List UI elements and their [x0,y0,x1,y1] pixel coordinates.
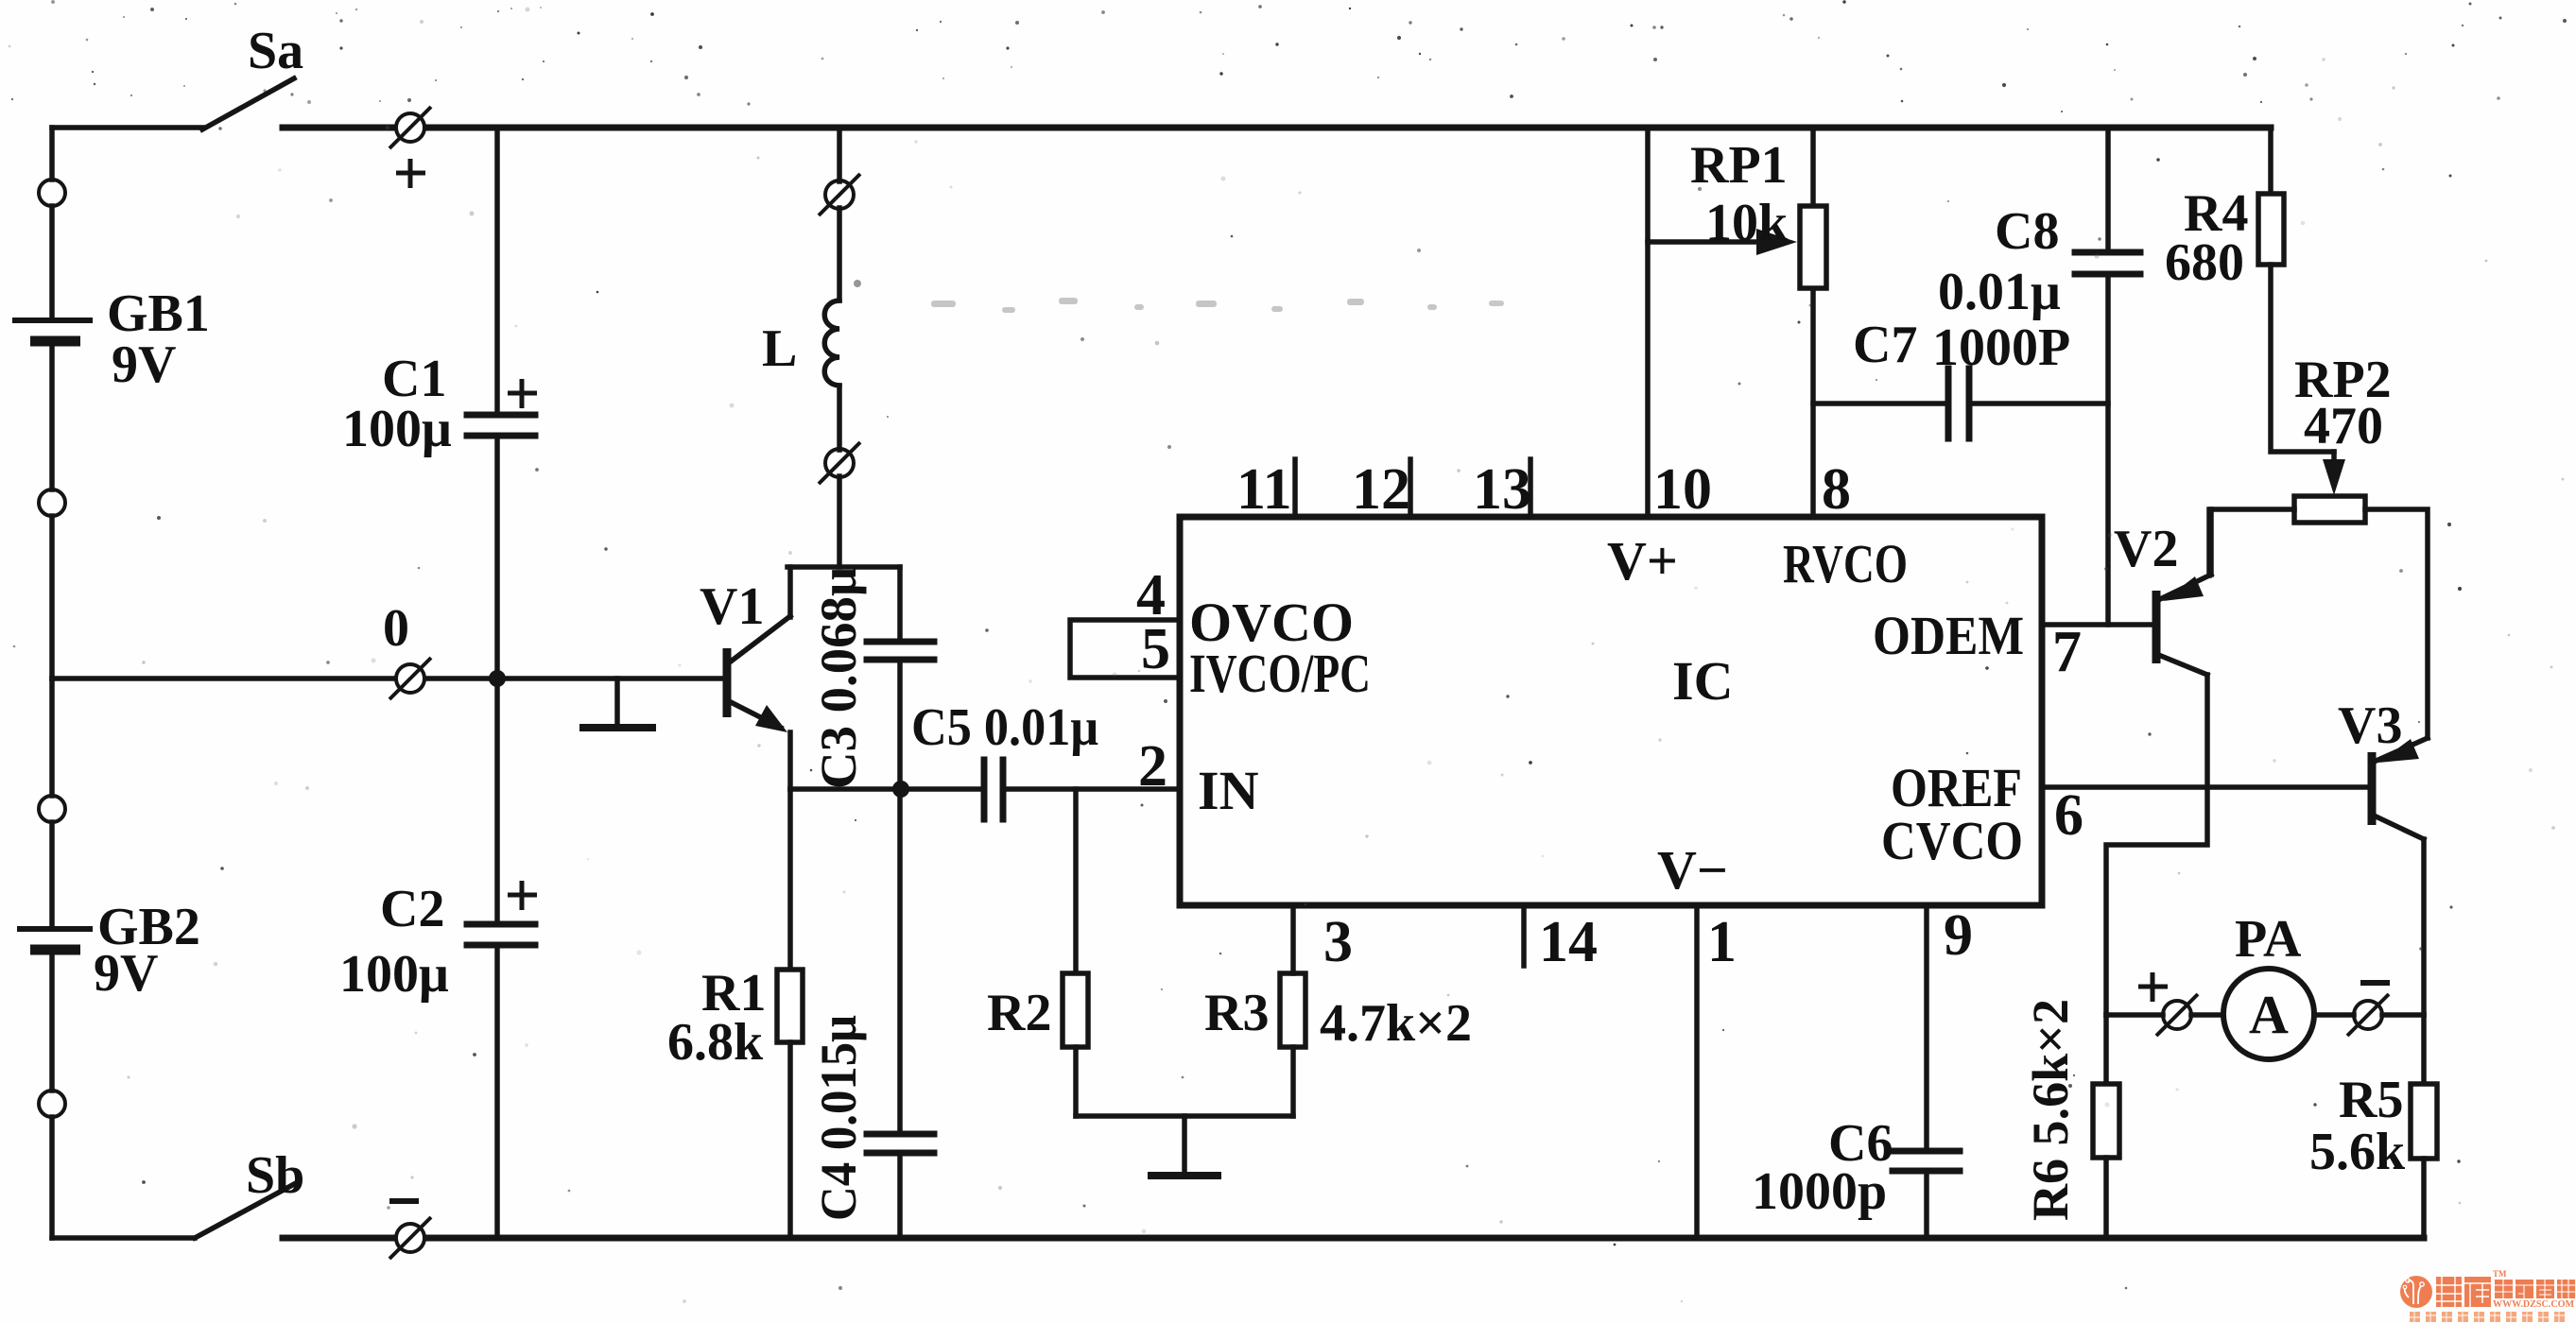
svg-text:C4 0.015μ: C4 0.015μ [810,1015,867,1221]
svg-text:9V: 9V [112,335,176,394]
svg-text:100μ: 100μ [339,945,449,1004]
svg-text:8: 8 [1822,457,1851,522]
svg-text:680: 680 [2165,233,2244,292]
svg-text:ODEM: ODEM [1873,605,2024,666]
svg-text:R3: R3 [1204,984,1269,1042]
svg-text:12: 12 [1352,457,1410,522]
svg-text:V+: V+ [1607,530,1678,592]
svg-text:9: 9 [1944,903,1973,968]
svg-text:7: 7 [2052,620,2082,684]
svg-text:100μ: 100μ [342,400,452,458]
svg-text:10k: 10k [1705,194,1789,252]
svg-text:CVCO: CVCO [1881,810,2023,871]
svg-text:13: 13 [1473,457,1531,522]
svg-text:R2: R2 [987,984,1051,1042]
svg-text:470: 470 [2304,397,2383,455]
svg-text:Sa: Sa [248,22,303,80]
svg-text:IVCO/PC: IVCO/PC [1189,643,1371,704]
svg-text:Sb: Sb [246,1146,304,1205]
svg-text:14: 14 [1539,910,1598,974]
svg-text:C5 0.01μ: C5 0.01μ [911,698,1098,757]
svg-text:1: 1 [1707,910,1737,974]
svg-text:RVCO: RVCO [1783,533,1908,594]
svg-text:L: L [762,319,797,378]
svg-text:GB1: GB1 [107,284,210,343]
svg-text:WWW.DZSC.COM: WWW.DZSC.COM [2493,1299,2575,1310]
svg-text:V−: V− [1657,839,1728,901]
svg-text:0.01μ: 0.01μ [1938,263,2061,321]
svg-text:C3 0.068μ: C3 0.068μ [810,567,867,789]
svg-text:C8: C8 [1995,202,2059,261]
svg-text:C7: C7 [1853,316,1917,374]
svg-text:6.8k: 6.8k [667,1013,764,1072]
svg-text:IC: IC [1672,650,1733,712]
svg-text:R6 5.6k×2: R6 5.6k×2 [2022,999,2079,1221]
svg-text:V1: V1 [700,577,764,636]
svg-text:1000P: 1000P [1932,318,2070,377]
svg-text:C2: C2 [380,880,444,938]
svg-text:1000p: 1000p [1752,1162,1887,1221]
svg-text:IN: IN [1198,760,1259,821]
svg-text:R5: R5 [2339,1071,2403,1129]
svg-text:TM: TM [2493,1269,2507,1279]
svg-text:V2: V2 [2114,520,2178,578]
svg-text:A: A [2249,984,2289,1045]
svg-text:4.7k×2: 4.7k×2 [1320,994,1472,1053]
svg-text:9V: 9V [94,944,158,1003]
svg-text:PA: PA [2235,910,2302,969]
svg-text:5: 5 [1141,617,1170,681]
svg-text:6: 6 [2054,783,2083,848]
svg-text:11: 11 [1236,457,1292,522]
svg-text:3: 3 [1323,910,1353,974]
svg-text:10: 10 [1653,457,1712,522]
svg-text:RP1: RP1 [1690,136,1788,195]
svg-text:0: 0 [383,599,409,658]
svg-text:5.6k: 5.6k [2309,1123,2406,1181]
svg-text:2: 2 [1138,734,1167,799]
svg-text:V3: V3 [2338,696,2402,755]
